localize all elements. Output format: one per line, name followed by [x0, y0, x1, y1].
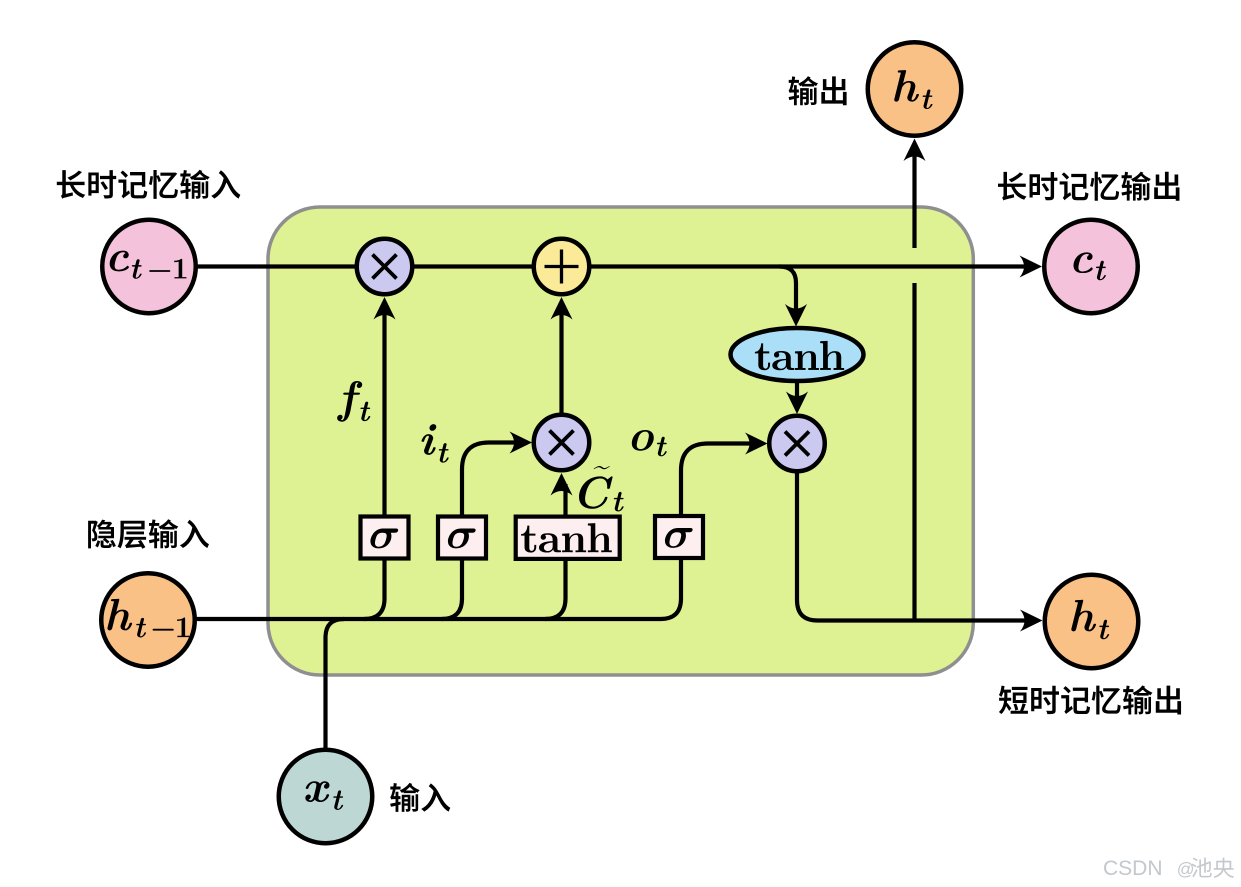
- arrowhead into candidate multiply (from tanh box): [551, 473, 573, 496]
- label: long-term memory output: [998, 172, 1027, 201]
- sigma glyph (input gate): [448, 528, 476, 548]
- label C-tilde_t (candidate cell state): [579, 476, 613, 508]
- node c_{t-1} long-term memory input: [102, 220, 196, 314]
- wire: forget gate column f_t: [364, 305, 385, 619]
- wire: tanh ellipse to output multiply: [795, 383, 799, 402]
- label: input (bottom): [390, 783, 419, 812]
- label: short-term memory output: [999, 686, 1028, 715]
- arrowhead into h_t right: [1020, 610, 1043, 632]
- wire: candidate tanh column: [545, 484, 566, 619]
- wire: vertical output riser to h_t top (below crossing gap): [912, 283, 916, 621]
- node h_t output top: [868, 42, 962, 136]
- node h_{t-1} hidden state input: [101, 573, 195, 667]
- sigma glyph (output gate): [665, 528, 693, 548]
- label: output (top): [789, 76, 818, 105]
- arrowhead into output multiply (from o gate): [745, 433, 768, 455]
- wire: multiply to add: [385, 264, 562, 268]
- label o_t (output gate signal): [632, 430, 654, 451]
- multiply node (forget gate on cell state): [357, 239, 413, 295]
- label: hidden layer input: [88, 520, 116, 549]
- arrowhead into candidate multiply (from i gate): [510, 432, 533, 454]
- wire: output gate column o_t: [661, 444, 757, 620]
- wire: c_{t-1} to multiply gate: [149, 264, 384, 268]
- node h_t short-term memory output: [1045, 575, 1139, 669]
- arrowhead into multiply (forget gate): [374, 297, 396, 320]
- node x_t input: [279, 750, 373, 844]
- gate box sigma (forget): [361, 517, 409, 559]
- svg-text:CSDN: CSDN: [1103, 857, 1163, 880]
- arrowhead into add (candidate path): [551, 297, 573, 320]
- wire: input gate column i_t: [442, 443, 522, 620]
- multiply node (input gate x candidate): [534, 415, 590, 471]
- arrowhead into c_t: [1020, 256, 1043, 278]
- tanh text (candidate gate box): [521, 526, 536, 553]
- node c_t long-term memory output: [1044, 220, 1138, 314]
- gate box tanh (candidate): [516, 517, 620, 559]
- sigma glyph (forget gate): [370, 528, 398, 548]
- label f_t (forget gate signal): [337, 381, 362, 422]
- label: long-term memory input: [57, 170, 86, 199]
- gate box sigma (output): [655, 516, 703, 558]
- arrowhead into h_t top: [904, 139, 926, 162]
- arrowhead into output multiply (from ellipse): [786, 392, 808, 415]
- label i_t (input gate signal): [422, 424, 437, 455]
- wire: x_t riser joining feed line: [326, 619, 345, 797]
- wire: output multiply down and right to h_t: [797, 473, 1030, 621]
- wire: add to c_t output (cell state line): [562, 264, 1031, 268]
- arrowhead into tanh ellipse: [785, 304, 807, 327]
- svg-text:@: @: [1177, 859, 1195, 879]
- gate box sigma (input): [438, 517, 486, 559]
- add node (cell state update): [534, 239, 590, 295]
- wire: branch down from cell state into tanh ellipse: [780, 267, 797, 314]
- multiply node (output gate): [769, 416, 825, 472]
- LSTM cell body (rounded rectangle): [268, 207, 973, 675]
- wire: h_{t-1} horizontal feed line: [148, 617, 661, 621]
- wire: vertical output riser to h_t top (above crossing gap): [912, 150, 916, 248]
- tanh ellipse (cell state activation): [731, 328, 864, 381]
- wire: candidate multiply up to add: [559, 308, 563, 413]
